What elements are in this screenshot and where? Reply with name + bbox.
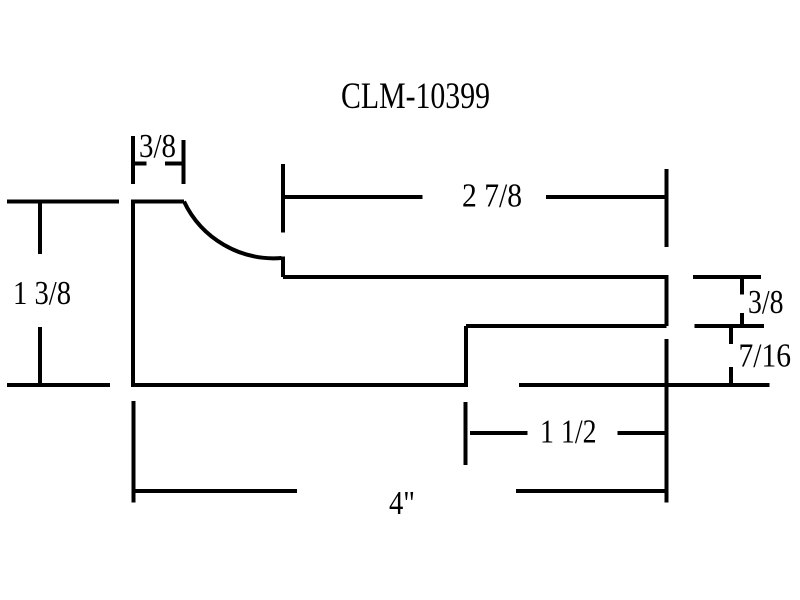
svg-text:3/8: 3/8 bbox=[139, 128, 176, 165]
svg-text:1 1/2: 1 1/2 bbox=[540, 414, 597, 451]
svg-text:3/8: 3/8 bbox=[748, 284, 784, 321]
svg-text:7/16: 7/16 bbox=[739, 338, 792, 375]
svg-text:2 7/8: 2 7/8 bbox=[462, 178, 522, 215]
svg-text:CLM-10399: CLM-10399 bbox=[341, 76, 490, 117]
svg-text:1 3/8: 1 3/8 bbox=[13, 275, 71, 312]
svg-text:4": 4" bbox=[389, 485, 415, 522]
